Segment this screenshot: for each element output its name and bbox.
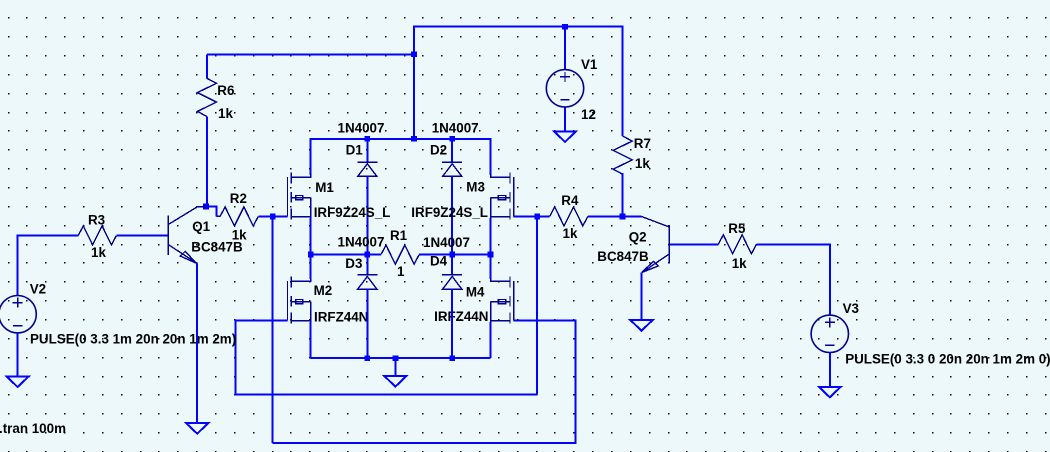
wire D2 top lead	[451, 139, 453, 162]
wire bridge ground lead	[394, 358, 396, 376]
wire D1 bottom lead	[366, 176, 368, 254]
ground under Q2 emitter	[631, 320, 653, 331]
voltage source V1	[546, 70, 583, 107]
diode D1	[357, 162, 377, 176]
junction D2 top	[449, 136, 455, 142]
svg-text:1N4007: 1N4007	[432, 121, 479, 136]
resistor R5	[718, 235, 756, 254]
junction left bridge output	[308, 252, 314, 258]
svg-text:BC847B: BC847B	[191, 240, 243, 255]
wire V3 negative lead	[829, 352, 831, 386]
wire R6 bottom to Q1 collector	[206, 117, 208, 207]
svg-text:1N4007: 1N4007	[338, 121, 385, 136]
wire M3 gate column down	[536, 216, 538, 394]
svg-text:D3: D3	[345, 256, 362, 271]
resistor R7	[613, 136, 632, 174]
wire R3 left lead from V2	[18, 235, 79, 295]
svg-text:M1: M1	[315, 180, 334, 195]
wire Q2 emitter to ground	[641, 272, 643, 320]
wire bridge top rail	[311, 139, 491, 175]
transistor Q1	[168, 207, 206, 264]
svg-text:1k: 1k	[563, 226, 578, 241]
mosfet M2	[288, 277, 311, 325]
svg-text:D2: D2	[430, 143, 447, 158]
junction R6/V+	[411, 51, 417, 57]
wire mid rail right	[419, 254, 490, 256]
svg-text:V3: V3	[843, 301, 859, 316]
svg-text:.tran 100m: .tran 100m	[0, 421, 66, 436]
junction M1 gate node	[270, 214, 276, 220]
junction D2/D4 mid	[449, 252, 455, 258]
wire Q2 base to R5	[669, 243, 718, 245]
svg-text:1k: 1k	[91, 245, 106, 260]
svg-text:Q1: Q1	[192, 219, 210, 234]
svg-text:D1: D1	[346, 143, 364, 158]
wire D3 top lead	[366, 255, 368, 275]
svg-text:R5: R5	[728, 221, 746, 236]
wire Q1 emitter to ground	[196, 263, 198, 423]
junction R7/Q2 collector	[620, 214, 626, 220]
wire M2 source down	[310, 322, 312, 358]
svg-text:R1: R1	[390, 228, 408, 243]
wire M1 drain to M2 drain column	[310, 218, 312, 279]
mosfet M1	[288, 173, 311, 221]
diode D2	[442, 162, 462, 176]
wire top rail R6 to V+ column	[207, 53, 414, 55]
wire V+ distribution from bridge top to R7 top	[414, 27, 623, 139]
wire cross-couple M1 gate to M4 gate	[273, 320, 576, 443]
wire R2 left jog	[206, 207, 217, 217]
svg-text:D4: D4	[430, 254, 448, 269]
ground under V3	[819, 387, 841, 398]
svg-text:PULSE(0 3.3 0 20n 20n 1m 2m 0): PULSE(0 3.3 0 20n 20n 1m 2m 0)	[845, 352, 1050, 367]
svg-text:PULSE(0 3.3 1m 20n 20n 1m 2m): PULSE(0 3.3 1m 20n 20n 1m 2m)	[30, 332, 236, 347]
wire V2 negative lead	[17, 333, 19, 377]
ground under V2	[7, 377, 29, 388]
svg-text:1N4007: 1N4007	[423, 235, 470, 250]
mosfet M4	[491, 277, 514, 325]
wire D1 top lead	[366, 139, 368, 162]
wire M4 source down	[490, 322, 492, 358]
svg-text:R3: R3	[88, 212, 105, 227]
diode D4	[442, 275, 462, 289]
junction D4 bottom	[449, 355, 455, 361]
junction right bridge output	[488, 252, 494, 258]
svg-text:R2: R2	[230, 191, 247, 206]
resistor R1	[381, 245, 419, 264]
wire R4 right to Q2 collector	[588, 215, 642, 217]
svg-text:1k: 1k	[218, 106, 233, 121]
wire M1 gate column down	[272, 216, 274, 443]
svg-text:IRFZ44N: IRFZ44N	[314, 309, 368, 324]
svg-text:M2: M2	[314, 283, 333, 298]
diode D3	[357, 275, 377, 289]
junction V+ feed on top rail	[411, 136, 417, 142]
mosfet M3	[491, 173, 514, 221]
svg-text:M4: M4	[466, 284, 485, 299]
svg-text:12: 12	[581, 107, 596, 122]
svg-text:V1: V1	[581, 57, 598, 72]
svg-text:1: 1	[397, 264, 405, 279]
wire bridge bottom rail	[311, 357, 491, 359]
junction V1 tap	[562, 24, 568, 30]
svg-text:R4: R4	[561, 193, 579, 208]
svg-text:M3: M3	[466, 180, 485, 195]
wire D3 bottom lead	[366, 289, 368, 358]
resistor R4	[550, 207, 588, 226]
transistor Q2	[642, 217, 670, 273]
wire mid rail left	[311, 254, 381, 256]
wire M3 gate stub	[514, 215, 538, 217]
voltage source V3	[811, 315, 848, 352]
junction D3 bottom	[364, 355, 370, 361]
wire D2 bottom lead	[451, 176, 453, 254]
wire V1 negative lead	[564, 107, 566, 131]
wire R7 bottom to Q2 collector node	[622, 173, 624, 216]
svg-text:IRF9Z24S_L: IRF9Z24S_L	[314, 205, 391, 220]
voltage source V2	[0, 296, 36, 333]
svg-text:V2: V2	[30, 282, 46, 297]
ground under Q1 emitter	[186, 423, 208, 434]
junction Q1 collector node	[203, 204, 209, 210]
wire R2 right to M1 gate	[258, 215, 287, 217]
junction D1/D3 mid	[364, 252, 370, 258]
svg-text:1k: 1k	[635, 156, 650, 171]
svg-text:BC847B: BC847B	[597, 249, 649, 264]
wire R5 right to V3	[757, 244, 831, 315]
ground under bridge	[384, 376, 406, 387]
svg-text:R6: R6	[217, 83, 234, 98]
svg-text:IRF9Z24S_L: IRF9Z24S_L	[411, 205, 488, 220]
ground under V1	[554, 131, 576, 142]
junction bridge ground tap	[393, 355, 399, 361]
svg-text:R7: R7	[634, 136, 651, 151]
wire R6 top lead	[206, 54, 208, 78]
wire D4 bottom lead	[451, 289, 453, 358]
svg-text:1k: 1k	[732, 256, 747, 271]
wire D4 top lead	[451, 255, 453, 275]
resistor R6	[197, 78, 216, 116]
wire cross-couple M3 gate to M2 gate	[236, 320, 538, 394]
svg-text:IRFZ44N: IRFZ44N	[434, 309, 488, 324]
wire M3 drain to M4 drain column	[490, 218, 492, 279]
wire R4 left lead	[537, 215, 550, 217]
wire R3 right to Q1 base	[117, 234, 169, 236]
svg-text:1N4007: 1N4007	[338, 234, 385, 249]
resistor R2	[220, 207, 258, 226]
wire V1 positive lead	[564, 27, 566, 70]
svg-text:Q2: Q2	[629, 229, 647, 244]
junction D1 top	[364, 136, 370, 142]
resistor R3	[78, 226, 116, 245]
junction M3 gate node	[534, 214, 540, 220]
